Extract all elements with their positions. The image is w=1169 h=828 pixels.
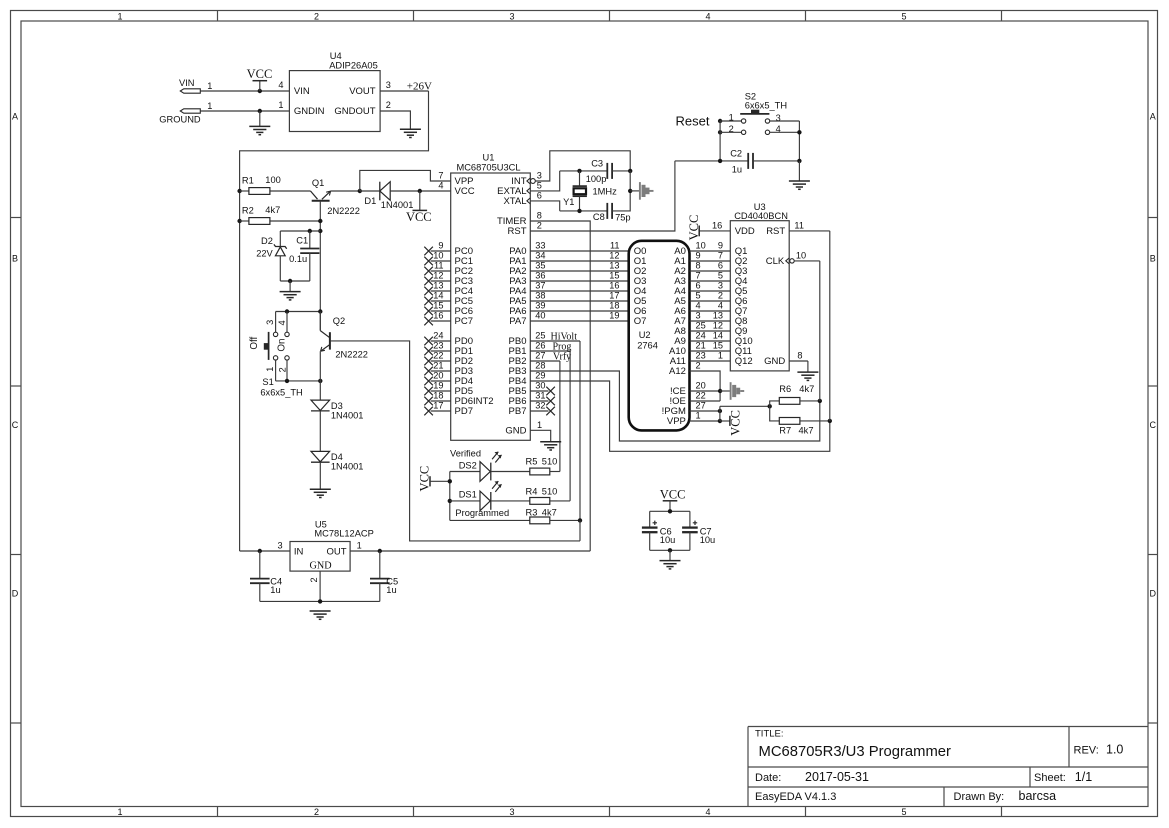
U2 pin A8 wire to U3 Q9	[690, 330, 731, 332]
svg-text:5: 5	[901, 807, 906, 817]
resistor R4 510	[530, 498, 550, 505]
diode D4 1N4001	[311, 451, 330, 461]
svg-text:4k7: 4k7	[542, 507, 557, 517]
junction C6C7 bottom	[668, 548, 672, 552]
svg-text:25: 25	[696, 321, 706, 331]
svg-text:U1: U1	[483, 153, 495, 163]
svg-text:O7: O7	[634, 316, 647, 327]
svg-text:8: 8	[696, 261, 701, 271]
frame column ticks top	[217, 11, 219, 22]
U1 pin PC3 no-connect	[431, 280, 451, 282]
resistor R5 510	[530, 468, 550, 475]
U1 pin PC5 no-connect	[431, 300, 451, 302]
svg-text:6: 6	[696, 281, 701, 291]
svg-text:1: 1	[278, 100, 283, 110]
svg-text:C3: C3	[591, 159, 603, 169]
switch S1 6x6x5_TH	[275, 312, 277, 333]
svg-text:2N2222: 2N2222	[335, 349, 368, 359]
wire to R7	[770, 406, 780, 421]
junction VCC feed	[448, 479, 452, 483]
svg-text:Programmed: Programmed	[455, 508, 509, 518]
diode D3 1N4001	[311, 400, 330, 410]
svg-text:ADIP26A05: ADIP26A05	[329, 61, 378, 71]
svg-text:2: 2	[309, 577, 319, 582]
svg-text:MC68705R3/U3 Programmer: MC68705R3/U3 Programmer	[759, 744, 952, 760]
svg-text:30: 30	[535, 381, 545, 391]
junction S1 bottom / main line	[318, 379, 322, 383]
svg-text:20: 20	[433, 371, 443, 381]
svg-text:21: 21	[433, 361, 443, 371]
U2 pin A7 wire to U3 Q8	[690, 320, 731, 322]
svg-text:4: 4	[438, 181, 443, 191]
svg-text:6x6x5_TH: 6x6x5_TH	[260, 387, 302, 397]
U1 pin PD4 no-connect	[431, 380, 451, 382]
svg-text:8: 8	[537, 211, 542, 221]
svg-text:11: 11	[610, 241, 620, 251]
U1 pin PD0 no-connect	[431, 340, 451, 342]
svg-text:11: 11	[434, 261, 444, 271]
U1 pin PD2 no-connect	[431, 360, 451, 362]
svg-text:1u: 1u	[732, 165, 742, 175]
svg-text:Q12: Q12	[735, 356, 753, 367]
U1 pin PC1 no-connect	[431, 260, 451, 262]
wire R3 to HiVolt line	[550, 519, 580, 521]
svg-text:4: 4	[696, 301, 701, 311]
ground below D2/C1	[289, 281, 291, 291]
svg-text:16: 16	[433, 311, 443, 321]
junction C3/INT loop	[628, 169, 632, 173]
U1 pin PD5 no-connect	[431, 390, 451, 392]
svg-text:32: 32	[535, 401, 545, 411]
svg-text:1: 1	[265, 367, 275, 372]
wire D3 to D4	[319, 411, 321, 451]
U1 pin PD1 no-connect	[431, 350, 451, 352]
wire LED feed vertical	[449, 472, 451, 521]
svg-text:2: 2	[314, 11, 319, 21]
svg-text:VPP: VPP	[667, 416, 686, 427]
wire TIMER to 12V net	[530, 221, 590, 551]
svg-text:GND: GND	[764, 356, 785, 367]
svg-text:9: 9	[718, 241, 723, 251]
svg-text:CD4040BCN: CD4040BCN	[734, 211, 788, 221]
wire Q1 base vertical	[319, 201, 321, 331]
U1 pin PC4 no-connect	[431, 290, 451, 292]
junction C1 top	[308, 229, 312, 233]
wire HiVolt down to Q2 base run	[579, 520, 581, 541]
U1 pin PB4 wire to R7/RST	[530, 381, 830, 451]
power flag VCC at U4 VIN	[259, 81, 261, 91]
svg-text:GNDOUT: GNDOUT	[334, 106, 375, 117]
junction S1 top / main line	[318, 309, 322, 313]
junction U5 GND / bottom bus	[318, 599, 322, 603]
svg-text:28: 28	[535, 361, 545, 371]
U1 pin PA3 wire to U2 O3	[530, 280, 628, 282]
svg-text:15: 15	[609, 271, 619, 281]
wire D1 to U1 VCC pin	[390, 190, 451, 192]
power flag VCC at U2 VPP	[720, 420, 730, 422]
svg-text:5: 5	[718, 271, 723, 281]
junction R7 / RST line	[828, 419, 832, 423]
power flag VCC for LEDs	[429, 476, 431, 486]
wire C6/C7 bottom bus	[650, 549, 690, 551]
svg-text:VIN: VIN	[179, 78, 195, 88]
U1 pin PD3 no-connect	[431, 370, 451, 372]
wire VOUT +26V	[380, 90, 428, 92]
svg-text:16: 16	[609, 281, 619, 291]
svg-text:0.1u: 0.1u	[289, 254, 307, 264]
wire U5 OUT to TIMER net	[350, 550, 590, 552]
resistor R1	[249, 188, 270, 195]
svg-text:1u: 1u	[270, 585, 280, 595]
svg-text:VCC: VCC	[729, 410, 743, 436]
wire R7 right	[800, 420, 830, 422]
junction Q1/D1/VPP loop	[358, 189, 362, 193]
svg-text:19: 19	[609, 311, 619, 321]
ground below U5	[310, 610, 331, 612]
svg-text:18: 18	[433, 391, 443, 401]
svg-text:5: 5	[537, 181, 542, 191]
wire CLK line down to R6	[819, 261, 821, 401]
svg-text:1MHz: 1MHz	[593, 186, 618, 196]
power flag VCC inverted at D1	[419, 191, 421, 210]
junction R2 tap on +26V rail	[237, 219, 241, 223]
svg-text:R6: R6	[779, 384, 791, 394]
svg-text:24: 24	[696, 331, 706, 341]
wire Q2 emitter down	[319, 351, 321, 400]
junction C6C7 top	[668, 509, 672, 513]
svg-text:B: B	[1150, 254, 1156, 264]
svg-text:D: D	[1150, 589, 1157, 599]
svg-text:19: 19	[433, 381, 443, 391]
svg-text:GND: GND	[505, 426, 526, 437]
resistor R2	[249, 218, 270, 225]
svg-text:39: 39	[535, 301, 545, 311]
wire Q1 emitter to D1	[331, 190, 360, 192]
capacitor C1 0.1u	[309, 231, 311, 249]
ground flag GND arrow at crystal	[639, 182, 641, 200]
svg-text:1: 1	[537, 420, 542, 430]
junction R1 tap on +26V rail	[237, 189, 241, 193]
wire C8 right up to C3	[612, 171, 630, 211]
ground at U4 GNDIN	[259, 111, 261, 126]
svg-text:21: 21	[696, 341, 706, 351]
wire DS1 anode	[450, 500, 480, 502]
svg-text:3: 3	[386, 80, 391, 90]
capacitor C2 1u	[747, 153, 749, 169]
svg-text:U2: U2	[639, 330, 651, 340]
U2 pin A4 wire to U3 Q5	[690, 290, 731, 292]
svg-text:12: 12	[713, 321, 723, 331]
wire Q2 base to HiVolt net	[330, 341, 580, 541]
svg-text:8: 8	[797, 350, 802, 360]
wire DS2 to R5	[491, 471, 530, 473]
U1 pin PA6 wire to U2 O6	[530, 310, 628, 312]
svg-text:barcsa: barcsa	[1019, 789, 1057, 803]
svg-text:17: 17	[609, 291, 619, 301]
U1 pin PA0 wire to U2 O0	[530, 250, 628, 252]
title block border	[748, 727, 1148, 807]
IC U2 body 2764	[629, 241, 690, 431]
svg-text:C1: C1	[296, 236, 308, 246]
wire C2 row left from RST riser	[675, 160, 748, 162]
svg-text:Q1: Q1	[312, 178, 324, 188]
U1 pin PC7 no-connect	[431, 320, 451, 322]
junction S2 pin2 node	[718, 130, 722, 134]
U3 pin CLK 10 with bubble	[790, 259, 794, 263]
svg-text:MC78L12ACP: MC78L12ACP	[314, 529, 373, 539]
svg-text:XTAL: XTAL	[503, 196, 526, 207]
svg-text:510: 510	[542, 456, 558, 466]
U1 pin PA1 wire to U2 O1	[530, 260, 628, 262]
U2 pin A2 wire to U3 Q3	[690, 270, 731, 272]
junction Q1 base / C1 wire	[318, 229, 322, 233]
svg-text:24: 24	[433, 331, 443, 341]
junction R3 / HiVolt / Q2 base	[578, 518, 582, 522]
svg-text:29: 29	[535, 371, 545, 381]
svg-text:13: 13	[433, 281, 443, 291]
wire VCC to R3	[450, 519, 530, 521]
wire S2 pin4	[770, 131, 800, 133]
wire R6 right	[800, 400, 820, 402]
svg-text:3: 3	[265, 320, 275, 325]
IC U3 body CD4040BCN	[730, 221, 789, 371]
wire D4 to ground	[319, 462, 321, 489]
wire D2-C1 bottom	[280, 280, 310, 282]
U1 pin PA5 wire to U2 O5	[530, 300, 628, 302]
svg-text:4k7: 4k7	[799, 384, 814, 394]
svg-text:27: 27	[535, 351, 545, 361]
svg-text:4k7: 4k7	[799, 426, 814, 436]
wire PGM node to R6/R7	[720, 405, 770, 407]
IC U5 body MC78L12ACP	[290, 542, 350, 572]
capacitor C3 100p	[606, 163, 608, 179]
wire +26V to U5 IN	[240, 550, 290, 552]
U1 pin EXTAL 5	[527, 188, 530, 194]
switch S2 6x6x5_TH	[740, 113, 769, 115]
svg-text:3: 3	[509, 11, 514, 21]
svg-text:1: 1	[207, 101, 212, 111]
wire D2 anode lead	[279, 256, 281, 281]
svg-text:VCC: VCC	[417, 466, 431, 492]
svg-text:10: 10	[696, 241, 706, 251]
svg-text:75p: 75p	[615, 212, 631, 222]
svg-text:2: 2	[537, 221, 542, 231]
svg-text:1: 1	[357, 540, 362, 550]
svg-text:R4: R4	[526, 486, 538, 496]
wire U5 GND down	[319, 571, 321, 601]
svg-text:2: 2	[718, 291, 723, 301]
svg-text:18: 18	[609, 301, 619, 311]
wire C3 right	[612, 170, 630, 172]
U2 pin A1 wire to U3 Q2	[690, 260, 731, 262]
svg-text:A: A	[12, 112, 18, 122]
svg-text:C8: C8	[593, 212, 605, 222]
wire C2 right	[753, 160, 799, 162]
svg-text:5: 5	[696, 291, 701, 301]
junction S2 pin4 node	[797, 130, 801, 134]
svg-text:13: 13	[713, 311, 723, 321]
capacitor C4 1u	[259, 551, 261, 579]
junction Q1 base / R2	[318, 219, 322, 223]
svg-text:EasyEDA V4.1.3: EasyEDA V4.1.3	[755, 791, 836, 803]
wire R2 left	[240, 220, 249, 222]
svg-text:20: 20	[696, 381, 706, 391]
svg-text:12: 12	[609, 251, 619, 261]
svg-text:13: 13	[609, 261, 619, 271]
wire S2 pin3	[770, 120, 800, 122]
junction S1 pin4 top	[285, 309, 289, 313]
svg-text:1: 1	[729, 112, 734, 122]
svg-text:40: 40	[535, 311, 545, 321]
svg-text:34: 34	[535, 251, 545, 261]
svg-text:VCC: VCC	[455, 186, 475, 197]
U1 pin PB1 wire net Prog	[530, 350, 570, 352]
svg-text:15: 15	[433, 301, 443, 311]
svg-text:10u: 10u	[660, 535, 676, 545]
wire C3 row left	[560, 170, 608, 172]
ground below D4	[310, 488, 331, 490]
wire S2 pin2	[720, 131, 741, 133]
wire EXTAL to crystal	[530, 171, 559, 191]
svg-text:RST: RST	[766, 226, 785, 237]
svg-text:A: A	[1150, 112, 1156, 122]
junction bottom gnd tap	[288, 279, 292, 283]
U1 pin INT 3 with bubble	[531, 179, 536, 184]
svg-text:1: 1	[718, 351, 723, 361]
svg-text:R7: R7	[779, 425, 791, 435]
capacitor C5 1u	[379, 551, 381, 579]
ground below C6/C7	[669, 550, 671, 560]
svg-text:5: 5	[901, 11, 906, 21]
svg-text:+26V: +26V	[407, 80, 432, 92]
svg-text:510: 510	[542, 486, 558, 496]
U1 pin PB5 no-connect	[530, 390, 548, 392]
svg-text:6x6x5_TH: 6x6x5_TH	[745, 100, 787, 110]
resistor R6 4k7	[779, 398, 800, 405]
svg-text:10u: 10u	[700, 535, 716, 545]
wire DS2 anode	[450, 471, 480, 473]
svg-text:100p: 100p	[586, 174, 607, 184]
wire R1 to Q1 collector	[270, 190, 310, 192]
svg-text:VDD: VDD	[735, 226, 755, 237]
junction crystal top	[577, 169, 581, 173]
svg-text:2: 2	[386, 100, 391, 110]
svg-text:Q2: Q2	[333, 316, 345, 326]
wire to R6	[770, 401, 780, 406]
svg-text:REV:: REV:	[1074, 745, 1099, 757]
transistor Q2 2N2222	[329, 332, 331, 349]
svg-text:2: 2	[278, 367, 288, 372]
svg-text:6: 6	[718, 261, 723, 271]
U1 pin PB0 wire net HiVolt	[530, 340, 580, 342]
svg-text:9: 9	[438, 241, 443, 251]
junction S1 pin2 bottom	[285, 379, 289, 383]
svg-text:DS1: DS1	[459, 490, 477, 500]
svg-text:Verified: Verified	[450, 449, 481, 459]
frame column ticks bottom	[217, 807, 219, 817]
junction C2 left	[718, 159, 722, 163]
svg-text:14: 14	[713, 331, 723, 341]
svg-text:PD7: PD7	[455, 406, 473, 417]
junction VPP node	[718, 419, 722, 423]
junction CE/OE/A12 gnd node	[718, 389, 722, 393]
svg-text:36: 36	[535, 271, 545, 281]
junction VCC tap after D1	[418, 189, 422, 193]
svg-text:35: 35	[535, 261, 545, 271]
svg-text:C2: C2	[730, 148, 742, 158]
junction R6 / CLK line	[818, 399, 822, 403]
svg-text:RST: RST	[508, 226, 527, 237]
svg-text:VCC: VCC	[406, 210, 432, 224]
svg-text:PB7: PB7	[509, 406, 527, 417]
svg-text:22: 22	[696, 391, 706, 401]
svg-text:1N4001: 1N4001	[331, 410, 364, 420]
U3 pin RST 11	[789, 230, 830, 232]
LED DS1 Programmed	[480, 491, 490, 511]
ground below S2/C2	[798, 161, 800, 181]
U2 pin A9 wire to U3 Q10	[690, 340, 731, 342]
U1 pin PC6 no-connect	[431, 310, 451, 312]
svg-text:D1: D1	[364, 196, 376, 206]
svg-text:DS2: DS2	[459, 460, 477, 470]
svg-text:3: 3	[696, 311, 701, 321]
svg-text:23: 23	[696, 351, 706, 361]
netport VIN flag	[180, 89, 200, 93]
wire R2 to Q1 base line	[270, 220, 320, 222]
wire S1 bottom bus	[276, 380, 321, 382]
svg-text:VOUT: VOUT	[349, 86, 376, 97]
svg-text:7: 7	[696, 271, 701, 281]
svg-text:OUT: OUT	[326, 546, 346, 557]
wire to gray ground	[630, 190, 640, 192]
svg-text:17: 17	[433, 401, 443, 411]
svg-text:16: 16	[712, 220, 722, 230]
svg-text:12: 12	[433, 271, 443, 281]
svg-text:4: 4	[705, 807, 710, 817]
junction C5 tap	[378, 549, 382, 553]
wire S2 left vertical	[719, 121, 721, 161]
wire R1 left	[240, 190, 249, 192]
wire VPP loop to U1 pin 7	[360, 170, 451, 191]
ground flag GND arrow at CE/OE	[730, 382, 732, 400]
svg-text:VCC: VCC	[687, 215, 701, 241]
svg-text:1N4001: 1N4001	[381, 200, 414, 210]
U3 pin GND 8	[789, 360, 808, 362]
U1 pin PB3 wire to R6/CLK	[530, 371, 820, 441]
U1 pin PB2 wire net Vrfy	[530, 360, 560, 362]
svg-text:CLK: CLK	[766, 256, 785, 267]
wire C8 row left	[560, 210, 608, 212]
wire C6/C7 top bus	[650, 510, 690, 512]
wire to gray ground at CE	[720, 390, 731, 392]
svg-text:D: D	[12, 589, 19, 599]
svg-text:PA7: PA7	[509, 316, 526, 327]
svg-text:A12: A12	[669, 366, 686, 377]
capacitor C8 75p	[606, 203, 608, 219]
wire XTAL to crystal	[530, 201, 559, 211]
junction C2 right / gnd	[797, 159, 801, 163]
svg-text:GND: GND	[310, 561, 332, 572]
wire VIN to U4	[200, 90, 289, 92]
svg-text:4: 4	[705, 11, 710, 21]
svg-text:31: 31	[535, 391, 545, 401]
netport GROUND flag	[180, 109, 200, 113]
svg-text:2: 2	[729, 124, 734, 134]
U1 pin PA4 wire to U2 O4	[530, 290, 628, 292]
junction PGM node	[718, 409, 722, 413]
svg-text:10: 10	[433, 251, 443, 261]
wire PGM-VPP tie	[719, 406, 721, 421]
